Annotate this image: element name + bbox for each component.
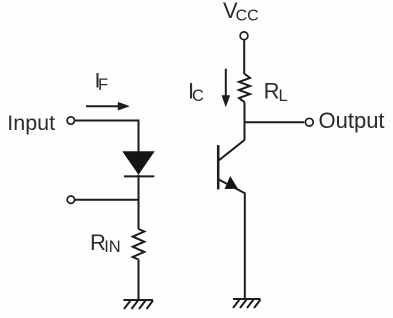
wire input- to junction bbox=[75, 199, 139, 201]
label IF bbox=[95, 69, 109, 94]
label VCC bbox=[223, 0, 259, 25]
wire node to output terminal bbox=[244, 121, 305, 123]
label RIN bbox=[90, 230, 121, 256]
svg-text:Output: Output bbox=[319, 108, 385, 133]
wire emitter to ground bbox=[244, 193, 246, 300]
svg-text:CC: CC bbox=[236, 8, 259, 25]
diode D1 (LED) bbox=[122, 151, 154, 176]
label RL bbox=[264, 79, 288, 105]
svg-text:C: C bbox=[192, 87, 204, 105]
arrow IC (collector current) bbox=[222, 69, 231, 108]
wire input+ to anode corner bbox=[75, 120, 139, 122]
svg-text:R: R bbox=[264, 79, 280, 104]
resistor RL bbox=[239, 74, 250, 102]
transistor Q1 phototransistor bbox=[218, 122, 245, 193]
wire cathode to RIN top bbox=[138, 175, 140, 229]
terminal Output bbox=[305, 118, 313, 126]
label IC bbox=[188, 78, 204, 104]
terminal input- bbox=[67, 196, 74, 203]
terminal input+ bbox=[67, 117, 74, 124]
svg-text:Input: Input bbox=[7, 111, 55, 135]
wire VCC to RL bbox=[243, 40, 245, 74]
svg-text:F: F bbox=[98, 76, 108, 94]
terminal VCC bbox=[240, 32, 248, 40]
resistor RIN bbox=[133, 229, 145, 260]
ground right bbox=[233, 299, 261, 308]
wire RL to output node bbox=[244, 102, 246, 123]
wire RIN to ground bbox=[138, 260, 140, 301]
wire anode vertical bbox=[138, 120, 140, 152]
ground left bbox=[123, 300, 153, 309]
svg-text:IN: IN bbox=[104, 238, 121, 256]
arrow IF (forward current) bbox=[86, 102, 130, 111]
svg-text:L: L bbox=[279, 87, 288, 105]
